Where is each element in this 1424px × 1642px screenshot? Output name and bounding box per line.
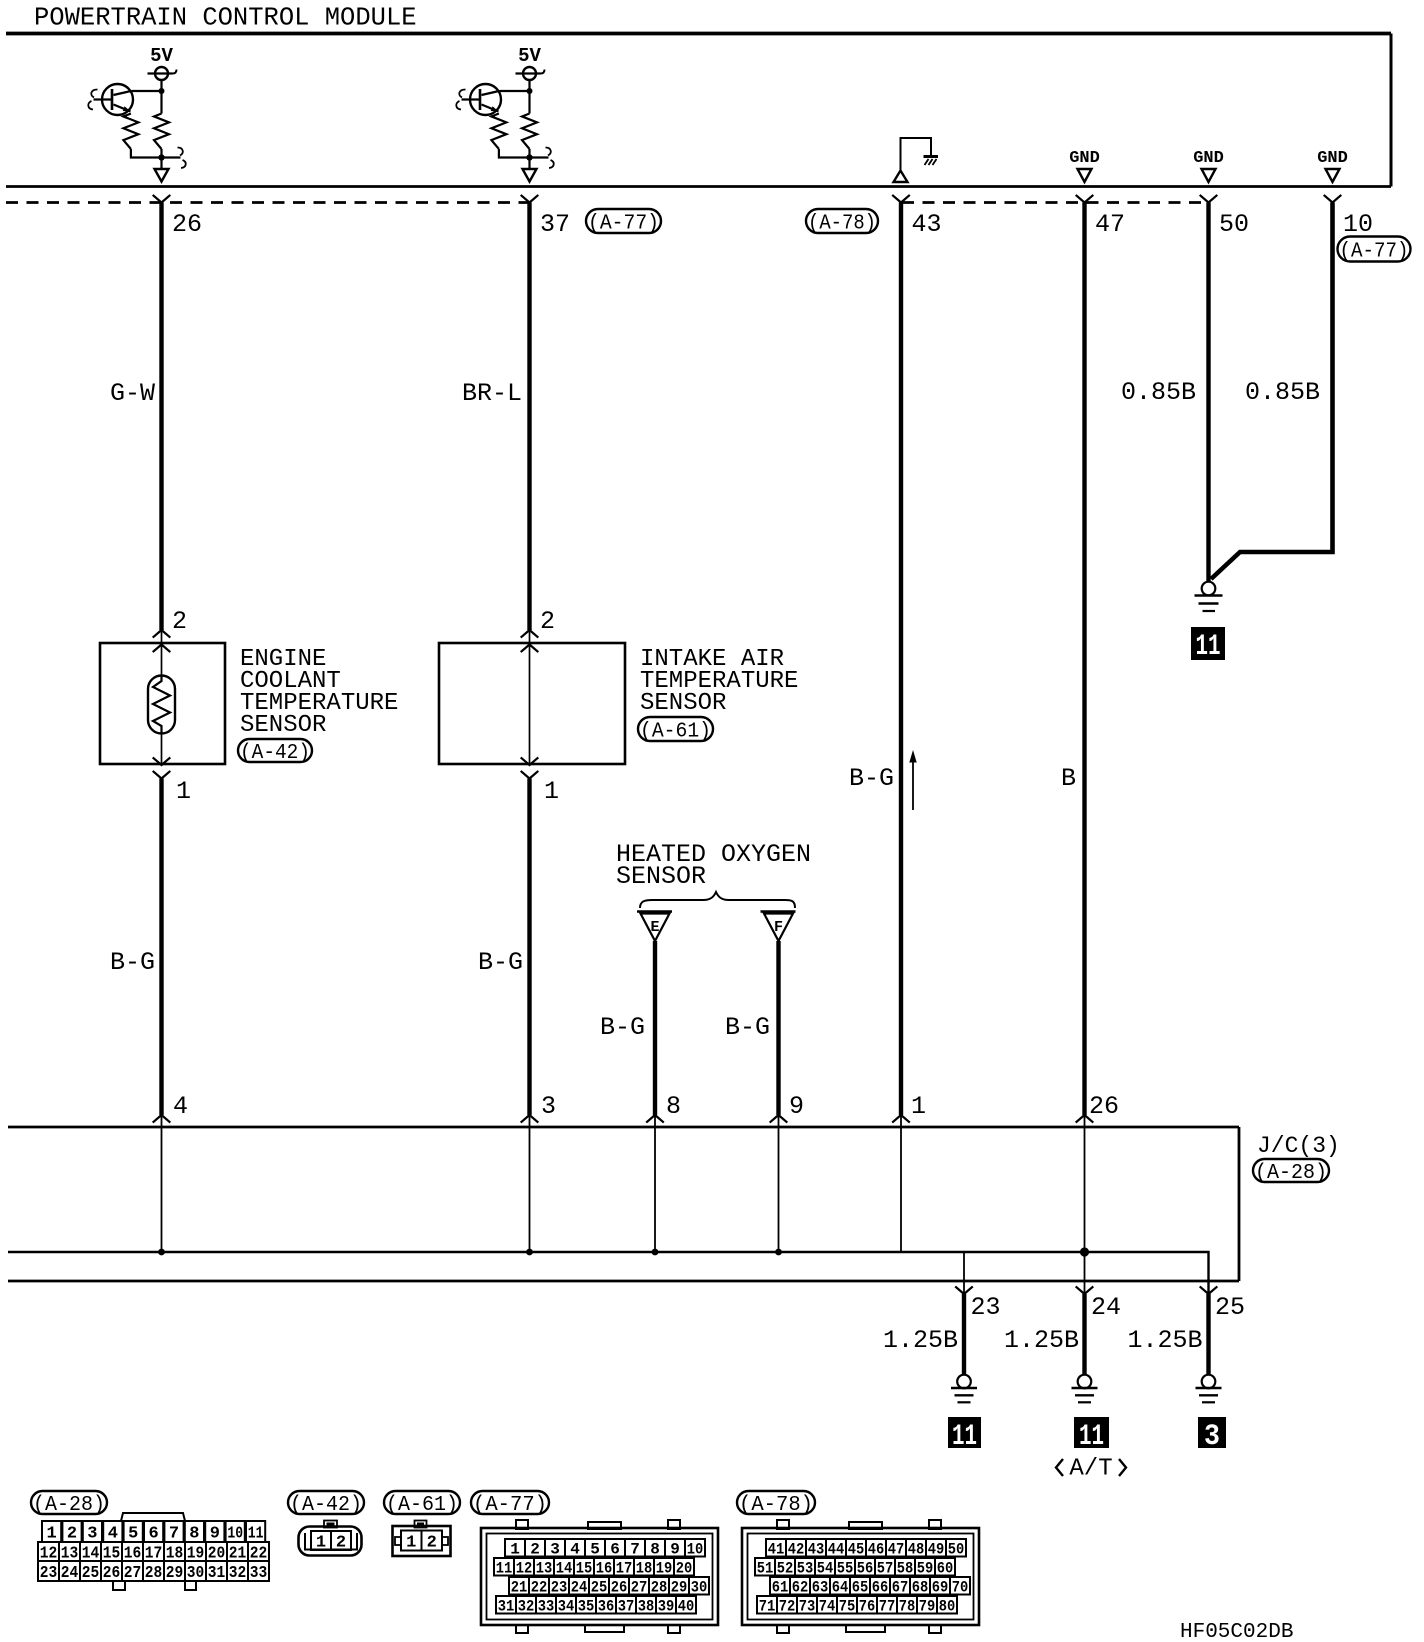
- svg-text:37: 37: [540, 210, 570, 239]
- svg-text:2: 2: [540, 607, 555, 636]
- svg-text:52: 52: [777, 1560, 794, 1578]
- wire inside J/C from pin 26: [1084, 1115, 1086, 1252]
- ground reference box 3 (pin 25): [1198, 1417, 1226, 1454]
- svg-text:9: 9: [210, 1525, 220, 1544]
- ground reference box 11 (pin 24): [1074, 1417, 1109, 1454]
- svg-text:SENSOR: SENSOR: [640, 690, 726, 717]
- svg-text:3: 3: [550, 1541, 560, 1559]
- svg-text:31: 31: [498, 1598, 515, 1616]
- svg-text:40: 40: [678, 1598, 695, 1616]
- pin 47 terminal arrow: [1076, 195, 1094, 203]
- ground reference box 11 (right): [1191, 627, 1225, 664]
- connector A-77 housing: [481, 1520, 718, 1633]
- svg-text:58: 58: [897, 1560, 914, 1578]
- svg-text:74: 74: [819, 1598, 836, 1616]
- pin 47 number: [1095, 210, 1125, 239]
- wire label 1.25B (pin 23): [883, 1326, 958, 1355]
- transistor Q1: [88, 84, 133, 115]
- J/C pin 4 terminal arrow: [153, 1115, 171, 1123]
- svg-text:48: 48: [908, 1541, 925, 1559]
- svg-text:76: 76: [859, 1598, 876, 1616]
- svg-text:18: 18: [636, 1560, 653, 1578]
- wire inside IAT box: [529, 630, 531, 765]
- svg-text:A/T: A/T: [1069, 1456, 1112, 1483]
- junction dot 2-a: [527, 88, 533, 94]
- ground symbol (pins 50/10): [1195, 582, 1223, 611]
- svg-text:31: 31: [208, 1564, 226, 1583]
- HO2S brace: [640, 892, 795, 908]
- wire inside J/C from pin 8: [654, 1115, 656, 1252]
- pin 43 number: [912, 210, 942, 239]
- svg-text:HF05C02DB: HF05C02DB: [1180, 1621, 1293, 1642]
- J/C internal bus wire: [8, 1252, 1209, 1294]
- svg-text:23: 23: [40, 1564, 58, 1583]
- wire inside J/C from pin 9: [778, 1115, 780, 1252]
- wire node to output triangle 1: [160, 158, 162, 170]
- connector A-28 pin grid: [38, 1521, 269, 1583]
- svg-text:50: 50: [948, 1541, 965, 1559]
- connector label A-78 top: [806, 209, 878, 236]
- pin 2 terminal arrows (ECT): [153, 630, 171, 652]
- svg-text:30: 30: [187, 1564, 205, 1583]
- svg-text:B-G: B-G: [110, 948, 155, 977]
- J/C pin 9 terminal arrow: [770, 1115, 788, 1123]
- svg-text:B-G: B-G: [478, 948, 523, 977]
- svg-text:F: F: [774, 919, 783, 936]
- svg-text:(A-77): (A-77): [1340, 241, 1409, 264]
- svg-text:53: 53: [797, 1560, 814, 1578]
- J/C pin 3 number: [541, 1092, 556, 1121]
- svg-text:0.85B: 0.85B: [1121, 378, 1196, 407]
- svg-text:(A-61): (A-61): [640, 721, 711, 744]
- svg-text:22: 22: [531, 1579, 548, 1597]
- wire thermistor to pin 1: [161, 734, 163, 766]
- svg-text:79: 79: [919, 1598, 936, 1616]
- wire label B-G (F): [725, 1013, 770, 1042]
- J/C pin 4 number: [173, 1092, 188, 1121]
- svg-text:64: 64: [832, 1579, 849, 1597]
- svg-text:5V: 5V: [518, 45, 541, 67]
- ECT sensor name text: [240, 646, 398, 739]
- pin 23 number: [971, 1293, 1001, 1322]
- svg-text:8: 8: [666, 1092, 681, 1121]
- svg-text:8: 8: [650, 1541, 660, 1559]
- connector A-61 housing: [393, 1521, 451, 1557]
- svg-text:41: 41: [768, 1541, 785, 1559]
- svg-text:8: 8: [189, 1525, 199, 1544]
- svg-text:30: 30: [691, 1579, 708, 1597]
- svg-text:POWERTRAIN CONTROL MODULE: POWERTRAIN CONTROL MODULE: [34, 4, 417, 33]
- ground reference box 11 (pin 23): [948, 1417, 981, 1454]
- svg-text:1: 1: [176, 777, 191, 806]
- svg-text:3: 3: [541, 1092, 556, 1121]
- internal ground wire (pin 43): [901, 138, 932, 170]
- wire inside J/C from pin 3: [529, 1115, 531, 1252]
- J/C pin 8 terminal arrow: [646, 1115, 664, 1123]
- pin 50 number: [1219, 210, 1249, 239]
- svg-text:47: 47: [1095, 210, 1125, 239]
- svg-text:(A-77): (A-77): [473, 1494, 547, 1517]
- svg-text:43: 43: [808, 1541, 825, 1559]
- output terminal triangle 2: [523, 169, 537, 182]
- svg-text:B-G: B-G: [600, 1013, 645, 1042]
- pin 26 number: [172, 210, 202, 239]
- svg-text:26: 26: [103, 1564, 121, 1583]
- J/C(3) name: [1257, 1133, 1340, 1159]
- svg-text:4: 4: [173, 1092, 188, 1121]
- svg-text:10: 10: [227, 1525, 243, 1544]
- svg-text:68: 68: [912, 1579, 929, 1597]
- svg-text:61: 61: [772, 1579, 789, 1597]
- connector label A-28 (bottom): [31, 1491, 107, 1517]
- svg-text:(A-78): (A-78): [739, 1494, 813, 1517]
- svg-text:47: 47: [888, 1541, 905, 1559]
- svg-text:62: 62: [792, 1579, 809, 1597]
- svg-text:73: 73: [799, 1598, 816, 1616]
- svg-text:29: 29: [671, 1579, 688, 1597]
- svg-text:B: B: [1061, 764, 1076, 793]
- svg-text:29: 29: [166, 1564, 184, 1583]
- wire inside J/C from pin 1: [900, 1115, 902, 1252]
- HO2S terminal F: [761, 912, 796, 942]
- svg-text:32: 32: [229, 1564, 247, 1583]
- svg-text:69: 69: [932, 1579, 949, 1597]
- wire pin 10 to ground junction: [1211, 203, 1333, 580]
- wire node to transistor collector 1: [132, 90, 162, 92]
- svg-text:27: 27: [124, 1564, 142, 1583]
- junction dot 1-b: [158, 154, 164, 160]
- connector label A-77 (bottom): [471, 1491, 549, 1517]
- svg-text:59: 59: [917, 1560, 934, 1578]
- pin 43 terminal arrow: [892, 195, 910, 203]
- svg-text:5: 5: [590, 1541, 600, 1559]
- svg-text:26: 26: [611, 1579, 628, 1597]
- IAT sensor name text: [640, 646, 798, 717]
- svg-text:1: 1: [510, 1541, 520, 1559]
- svg-text:44: 44: [828, 1541, 845, 1559]
- svg-text:SENSOR: SENSOR: [616, 862, 706, 891]
- pin 1 terminal arrows (IAT): [521, 757, 539, 778]
- svg-text:1.25B: 1.25B: [1127, 1326, 1202, 1355]
- svg-text:2: 2: [530, 1541, 540, 1559]
- wire label B (pin 47): [1061, 764, 1076, 793]
- 5V power symbol 2: [516, 67, 545, 80]
- wire label B-G (pin 43): [849, 764, 894, 793]
- connector A-77 pin grid: [494, 1539, 709, 1616]
- pin 2 terminal arrows (IAT): [521, 630, 539, 652]
- svg-text:1: 1: [316, 1534, 326, 1553]
- svg-text:7: 7: [630, 1541, 640, 1559]
- svg-text:21: 21: [511, 1579, 528, 1597]
- svg-text:38: 38: [638, 1598, 655, 1616]
- svg-text:2: 2: [67, 1525, 77, 1544]
- wire label 1.25B (pin 25): [1127, 1326, 1202, 1355]
- svg-text:1: 1: [46, 1525, 56, 1544]
- svg-text:BR-L: BR-L: [462, 379, 522, 408]
- wire R2-1 bottom to node: [499, 149, 530, 158]
- svg-text:25: 25: [1215, 1293, 1245, 1322]
- svg-text:5V: 5V: [150, 45, 173, 67]
- connector label A-77 top: [586, 209, 661, 236]
- svg-text:(A-42): (A-42): [290, 1494, 362, 1517]
- wire ECT pin 1 to J/C pin 4 (B-G): [159, 779, 163, 1116]
- wire R1-1 bottom to node: [131, 149, 162, 158]
- wire inside J/C from pin 4: [161, 1115, 163, 1252]
- ECT sensor box A-42: [100, 643, 225, 764]
- 5V supply label 2: [518, 45, 541, 67]
- svg-text:34: 34: [558, 1598, 575, 1616]
- svg-text:70: 70: [952, 1579, 969, 1597]
- wire label 0.85B (pin 50): [1121, 378, 1196, 407]
- title POWERTRAIN CONTROL MODULE: [34, 4, 417, 33]
- svg-text:57: 57: [877, 1560, 894, 1578]
- A/T note: [1056, 1456, 1126, 1483]
- svg-text:37: 37: [618, 1598, 635, 1616]
- svg-text:11: 11: [952, 1420, 977, 1454]
- wire HO2S F to J/C pin 9 (B-G): [776, 941, 780, 1115]
- svg-text:J/C(3): J/C(3): [1257, 1133, 1340, 1159]
- svg-text:25: 25: [82, 1564, 100, 1583]
- wire pin 37 to IAT sensor: [527, 203, 531, 631]
- resistor R2-2: [522, 91, 537, 158]
- wire label BR-L: [462, 379, 522, 408]
- junction dot 2-b: [526, 154, 532, 160]
- wire pin 43 to J/C: [899, 203, 903, 1116]
- svg-text:14: 14: [556, 1560, 573, 1578]
- svg-text:39: 39: [658, 1598, 675, 1616]
- junction dot pin 8: [652, 1249, 659, 1256]
- stub wire right of node 2: [530, 148, 554, 169]
- svg-text:24: 24: [571, 1579, 588, 1597]
- pin 2 number (IAT): [540, 607, 555, 636]
- pin 25 number: [1215, 1293, 1245, 1322]
- svg-text:24: 24: [61, 1564, 79, 1583]
- svg-text:24: 24: [1091, 1293, 1121, 1322]
- svg-text:11: 11: [248, 1525, 264, 1544]
- GND label pin 10: [1317, 149, 1348, 168]
- connector A-28 bottom tabs: [113, 1581, 196, 1590]
- HO2S terminal E: [637, 912, 672, 942]
- connector A-42 housing: [299, 1521, 362, 1556]
- wire label B-G (IAT): [478, 948, 523, 977]
- svg-text:9: 9: [670, 1541, 680, 1559]
- svg-text:(A-78): (A-78): [808, 213, 876, 236]
- pin 10 number: [1343, 210, 1373, 239]
- wire node to transistor collector 2: [500, 90, 530, 92]
- connector dashed line A-77 left: [6, 201, 530, 204]
- connector label A-42 (bottom): [288, 1491, 364, 1517]
- svg-text:43: 43: [912, 210, 942, 239]
- connector label A-42: [238, 739, 312, 765]
- svg-text:2: 2: [427, 1534, 437, 1553]
- pin 50 terminal arrow: [1200, 195, 1218, 203]
- J/C pin 26 number: [1089, 1092, 1119, 1121]
- svg-text:GND: GND: [1193, 149, 1224, 168]
- svg-text:10: 10: [687, 1541, 704, 1559]
- svg-text:2: 2: [172, 607, 187, 636]
- junction dot pin 9: [775, 1249, 782, 1256]
- svg-text:B-G: B-G: [725, 1013, 770, 1042]
- svg-text:32: 32: [518, 1598, 535, 1616]
- svg-text:27: 27: [631, 1579, 648, 1597]
- GND terminal triangle pin 10: [1326, 169, 1340, 182]
- svg-text:7: 7: [169, 1525, 179, 1544]
- output terminal triangle 1: [155, 169, 169, 182]
- connector A-28 top tab: [121, 1513, 185, 1521]
- connector label A-61 (bottom): [384, 1491, 460, 1517]
- svg-text:0.85B: 0.85B: [1245, 378, 1320, 407]
- svg-text:E: E: [650, 919, 659, 936]
- terminal triangle pin 43: [894, 171, 908, 183]
- wire node to output triangle 2: [528, 158, 530, 170]
- connector A-78 housing: [742, 1520, 979, 1633]
- connector label A-78 (bottom): [737, 1491, 815, 1517]
- svg-text:26: 26: [172, 210, 202, 239]
- wire label 1.25B (pin 24): [1004, 1326, 1079, 1355]
- svg-text:9: 9: [789, 1092, 804, 1121]
- svg-text:4: 4: [570, 1541, 580, 1559]
- svg-text:19: 19: [656, 1560, 673, 1578]
- pin 1 number (IAT): [544, 777, 559, 806]
- svg-text:GND: GND: [1317, 149, 1348, 168]
- chassis ground symbol: [924, 157, 939, 166]
- svg-text:1.25B: 1.25B: [1004, 1326, 1079, 1355]
- pin 37 number: [540, 210, 570, 239]
- ground symbol pin 25: [1196, 1375, 1222, 1403]
- svg-text:45: 45: [848, 1541, 865, 1559]
- junction dot pin 26/24: [1080, 1247, 1089, 1256]
- wire label B-G (E): [600, 1013, 645, 1042]
- svg-text:17: 17: [616, 1560, 633, 1578]
- wire pin 25 to ground (1.25B): [1206, 1294, 1210, 1375]
- pin 24 terminal arrow: [1076, 1286, 1094, 1294]
- svg-text:11: 11: [496, 1560, 513, 1578]
- svg-text:50: 50: [1219, 210, 1249, 239]
- wire pin 23 to ground (1.25B): [962, 1294, 966, 1375]
- PCM module box U1: [6, 34, 1391, 187]
- diagram code HF05C02DB: [1180, 1621, 1293, 1642]
- svg-text:5: 5: [128, 1525, 138, 1544]
- thermistor element: [148, 676, 175, 734]
- resistor R2-1: [491, 114, 506, 150]
- wire label G-W: [110, 379, 155, 408]
- svg-text:67: 67: [892, 1579, 909, 1597]
- svg-text:49: 49: [928, 1541, 945, 1559]
- svg-text:(A-28): (A-28): [1255, 1162, 1327, 1185]
- wire label B-G (ECT): [110, 948, 155, 977]
- GND label pin 50: [1193, 149, 1224, 168]
- svg-text:55: 55: [837, 1560, 854, 1578]
- pin 2 number (ECT): [172, 607, 187, 636]
- svg-text:66: 66: [872, 1579, 889, 1597]
- junction dot 1-a: [159, 88, 165, 94]
- junction connector J/C(3) box: [8, 1127, 1239, 1281]
- svg-text:1.25B: 1.25B: [883, 1326, 958, 1355]
- svg-text:54: 54: [817, 1560, 834, 1578]
- wire IAT pin 1 to J/C pin 3 (B-G): [527, 779, 531, 1116]
- ground symbol pin 23: [951, 1375, 977, 1403]
- 5V power symbol 1: [148, 67, 177, 80]
- svg-text:15: 15: [576, 1560, 593, 1578]
- J/C pin 3 terminal arrow: [521, 1115, 539, 1123]
- svg-text:23: 23: [551, 1579, 568, 1597]
- svg-text:20: 20: [676, 1560, 693, 1578]
- svg-text:60: 60: [937, 1560, 954, 1578]
- svg-text:SENSOR: SENSOR: [240, 712, 326, 739]
- svg-text:G-W: G-W: [110, 379, 155, 408]
- svg-text:6: 6: [610, 1541, 620, 1559]
- svg-text:1: 1: [911, 1092, 926, 1121]
- connector label A-77 right: [1338, 237, 1411, 264]
- transistor Q2: [456, 84, 501, 115]
- pin 37 terminal arrow: [521, 195, 539, 203]
- wire pin 26 to ECT sensor: [159, 203, 163, 631]
- svg-text:11: 11: [1079, 1420, 1104, 1454]
- J/C pin 8 number: [666, 1092, 681, 1121]
- resistor R1-2: [154, 91, 169, 158]
- connector A-42 pin cells: [311, 1531, 351, 1553]
- pin 10 terminal arrow: [1324, 195, 1342, 203]
- svg-text:56: 56: [857, 1560, 874, 1578]
- svg-text:77: 77: [879, 1598, 896, 1616]
- wire 5V to node 2: [528, 80, 530, 91]
- svg-text:16: 16: [596, 1560, 613, 1578]
- J/C pin 1 number: [911, 1092, 926, 1121]
- svg-text:B-G: B-G: [849, 764, 894, 793]
- svg-text:3: 3: [1204, 1420, 1220, 1454]
- 5V supply label 1: [150, 45, 173, 67]
- svg-text:36: 36: [598, 1598, 615, 1616]
- svg-text:46: 46: [868, 1541, 885, 1559]
- J/C pin 26 terminal arrow: [1076, 1115, 1094, 1123]
- IAT sensor box A-61: [439, 643, 625, 764]
- wire label 0.85B (pin 10): [1245, 378, 1320, 407]
- wire into thermistor: [161, 630, 163, 677]
- svg-text:23: 23: [971, 1293, 1001, 1322]
- J/C pin 1 terminal arrow: [892, 1115, 910, 1123]
- pin 1 terminal arrows (ECT): [153, 757, 171, 778]
- svg-text:33: 33: [250, 1564, 268, 1583]
- svg-text:4: 4: [108, 1525, 118, 1544]
- pin 1 number (ECT): [176, 777, 191, 806]
- connector label A-61: [638, 717, 713, 744]
- direction arrow up: [909, 750, 916, 810]
- GND label pin 47: [1069, 149, 1100, 168]
- drop wire to pin 24: [1084, 1252, 1086, 1294]
- svg-text:78: 78: [899, 1598, 916, 1616]
- svg-text:(A-28): (A-28): [33, 1494, 105, 1517]
- pin 24 number: [1091, 1293, 1121, 1322]
- svg-text:28: 28: [651, 1579, 668, 1597]
- svg-text:42: 42: [788, 1541, 805, 1559]
- svg-text:(A-42): (A-42): [240, 742, 310, 765]
- wire HO2S E to J/C pin 8 (B-G): [653, 941, 657, 1115]
- svg-text:26: 26: [1089, 1092, 1119, 1121]
- wire pin 47 to J/C: [1082, 203, 1086, 1116]
- svg-text:10: 10: [1343, 210, 1373, 239]
- connector A-61 pin cells: [401, 1531, 442, 1553]
- GND terminal triangle pin 47: [1078, 169, 1092, 182]
- svg-text:25: 25: [591, 1579, 608, 1597]
- HO2S name text: [616, 840, 811, 891]
- svg-text:65: 65: [852, 1579, 869, 1597]
- connector label A-28 (J/C): [1253, 1159, 1329, 1185]
- svg-text:51: 51: [757, 1560, 774, 1578]
- ground symbol pin 24: [1072, 1375, 1098, 1403]
- resistor R1-1: [123, 114, 138, 150]
- svg-text:(A-77): (A-77): [588, 213, 659, 236]
- svg-text:28: 28: [145, 1564, 163, 1583]
